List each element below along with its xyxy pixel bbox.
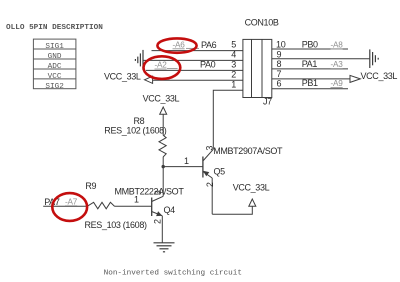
svg-text:J7: J7 — [263, 97, 272, 107]
svg-text:VCC_33L: VCC_33L — [361, 71, 398, 81]
svg-text:1: 1 — [184, 156, 189, 166]
svg-text:5: 5 — [231, 40, 236, 50]
svg-text:2: 2 — [205, 182, 215, 187]
svg-text:4: 4 — [231, 50, 236, 60]
svg-text:R9: R9 — [85, 181, 96, 191]
svg-text:1: 1 — [231, 79, 236, 89]
svg-text:PB1: PB1 — [302, 78, 318, 88]
svg-text:PA1: PA1 — [302, 59, 318, 69]
svg-text:-A3: -A3 — [331, 60, 344, 69]
svg-text:VCC: VCC — [48, 73, 62, 81]
svg-text:-A7: -A7 — [65, 198, 78, 207]
svg-text:MMBT2907A/SOT: MMBT2907A/SOT — [213, 146, 283, 156]
svg-text:OLLO 5PIN DESCRIPTION: OLLO 5PIN DESCRIPTION — [6, 24, 103, 32]
svg-text:8: 8 — [277, 59, 282, 69]
svg-text:9: 9 — [277, 49, 282, 59]
svg-text:3: 3 — [153, 190, 163, 195]
svg-text:3: 3 — [231, 60, 236, 70]
svg-text:ADC: ADC — [48, 63, 62, 71]
svg-text:CON10B: CON10B — [245, 18, 279, 28]
svg-text:GND: GND — [48, 53, 62, 61]
svg-text:10: 10 — [276, 40, 286, 50]
svg-text:-A2: -A2 — [155, 61, 168, 70]
svg-text:SIG1: SIG1 — [45, 43, 64, 51]
svg-text:RES_103 (1608): RES_103 (1608) — [85, 220, 147, 230]
svg-text:Non-inverted switching circuit: Non-inverted switching circuit — [104, 270, 242, 278]
svg-text:2: 2 — [231, 69, 236, 79]
svg-text:-A9: -A9 — [331, 79, 344, 88]
svg-text:VCC_33L: VCC_33L — [233, 183, 270, 193]
svg-text:SIG2: SIG2 — [45, 83, 64, 91]
svg-text:2: 2 — [153, 219, 163, 224]
svg-text:PB0: PB0 — [302, 40, 318, 50]
svg-text:VCC_33L: VCC_33L — [104, 72, 141, 82]
svg-text:3: 3 — [204, 146, 214, 151]
svg-text:7: 7 — [277, 69, 282, 79]
svg-text:6: 6 — [277, 79, 282, 89]
svg-text:Q5: Q5 — [214, 167, 226, 177]
svg-text:MMBT2222A/SOT: MMBT2222A/SOT — [115, 187, 185, 197]
svg-text:PA0: PA0 — [200, 60, 216, 70]
svg-text:PA6: PA6 — [201, 40, 217, 50]
svg-text:RES_102 (1608): RES_102 (1608) — [104, 126, 166, 136]
svg-text:-A8: -A8 — [331, 41, 344, 50]
svg-text:Q4: Q4 — [164, 205, 176, 215]
svg-text:-A6: -A6 — [173, 40, 186, 49]
svg-text:VCC_33L: VCC_33L — [143, 94, 180, 104]
svg-text:R8: R8 — [134, 116, 145, 126]
